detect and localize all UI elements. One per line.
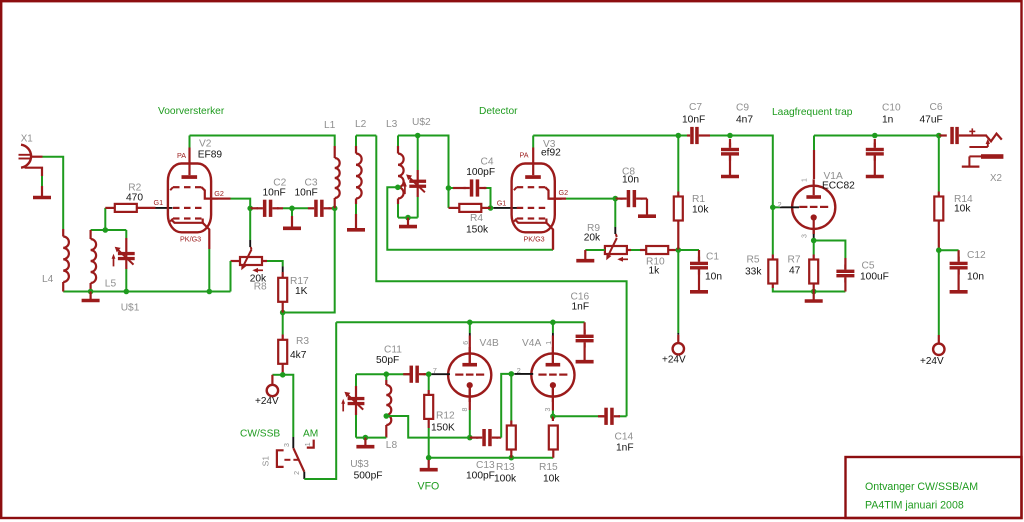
svg-text:R15: R15 xyxy=(539,462,558,473)
svg-text:2: 2 xyxy=(294,471,301,475)
svg-text:2: 2 xyxy=(517,366,521,375)
svg-text:Laagfrequent trap: Laagfrequent trap xyxy=(772,107,853,118)
svg-text:10k: 10k xyxy=(543,474,560,485)
svg-text:3: 3 xyxy=(802,234,809,238)
svg-text:V4A: V4A xyxy=(522,338,541,349)
svg-text:10nF: 10nF xyxy=(682,115,705,126)
svg-text:C11: C11 xyxy=(384,345,402,356)
svg-text:C9: C9 xyxy=(736,103,749,114)
svg-text:EF89: EF89 xyxy=(198,149,223,160)
svg-text:ef92: ef92 xyxy=(541,148,561,159)
svg-text:4k7: 4k7 xyxy=(290,350,307,361)
svg-text:150k: 150k xyxy=(466,225,489,236)
svg-text:47: 47 xyxy=(789,266,801,277)
svg-text:G2: G2 xyxy=(214,189,224,198)
svg-text:+24V: +24V xyxy=(662,355,686,366)
svg-text:C6: C6 xyxy=(930,102,943,113)
svg-text:10k: 10k xyxy=(954,204,971,215)
svg-text:U$1: U$1 xyxy=(121,303,140,314)
svg-text:1K: 1K xyxy=(295,286,308,297)
svg-text:10n: 10n xyxy=(705,272,722,283)
svg-text:C10: C10 xyxy=(882,103,901,114)
svg-text:R8: R8 xyxy=(254,281,267,292)
svg-text:CW/SSB: CW/SSB xyxy=(240,429,280,440)
svg-text:10k: 10k xyxy=(692,205,709,216)
svg-text:C7: C7 xyxy=(689,102,702,113)
svg-text:7: 7 xyxy=(433,366,437,375)
svg-text:X1: X1 xyxy=(21,133,33,144)
svg-text:L1: L1 xyxy=(324,120,336,131)
svg-text:PK/G3: PK/G3 xyxy=(524,235,545,244)
svg-text:1nF: 1nF xyxy=(572,302,590,313)
svg-text:1: 1 xyxy=(305,442,312,446)
svg-text:AM: AM xyxy=(303,429,318,440)
svg-text:100pF: 100pF xyxy=(466,471,495,482)
svg-text:+24V: +24V xyxy=(920,356,944,367)
svg-text:2: 2 xyxy=(778,200,782,209)
svg-text:PA4TIM januari 2008: PA4TIM januari 2008 xyxy=(865,500,964,512)
svg-text:1: 1 xyxy=(546,341,553,345)
svg-text:G2: G2 xyxy=(559,188,569,197)
svg-text:R4: R4 xyxy=(470,213,483,224)
svg-text:50pF: 50pF xyxy=(376,355,399,366)
svg-text:10n: 10n xyxy=(967,272,984,283)
svg-text:4n7: 4n7 xyxy=(736,115,753,126)
svg-text:1nF: 1nF xyxy=(616,443,634,454)
svg-text:R1: R1 xyxy=(692,194,705,205)
svg-text:PA: PA xyxy=(520,151,529,160)
svg-text:1n: 1n xyxy=(882,115,893,126)
svg-text:20k: 20k xyxy=(584,233,601,244)
svg-text:G1: G1 xyxy=(497,198,507,207)
svg-text:10nF: 10nF xyxy=(263,188,286,199)
svg-text:1: 1 xyxy=(802,178,809,182)
svg-text:U$3: U$3 xyxy=(350,459,369,470)
svg-text:R12: R12 xyxy=(436,411,455,422)
svg-text:C1: C1 xyxy=(706,252,719,263)
svg-text:V4B: V4B xyxy=(480,338,499,349)
svg-text:150K: 150K xyxy=(431,423,455,434)
svg-text:L8: L8 xyxy=(386,440,398,451)
svg-text:C4: C4 xyxy=(481,156,494,167)
svg-text:+24V: +24V xyxy=(255,396,279,407)
svg-text:PK/G3: PK/G3 xyxy=(180,235,201,244)
svg-text:Detector: Detector xyxy=(479,106,518,117)
svg-text:R13: R13 xyxy=(496,462,515,473)
svg-text:C13: C13 xyxy=(476,460,495,471)
svg-text:L5: L5 xyxy=(105,278,117,289)
svg-text:3: 3 xyxy=(545,408,552,412)
svg-text:1k: 1k xyxy=(649,266,661,277)
svg-text:L2: L2 xyxy=(355,119,367,130)
svg-text:100uF: 100uF xyxy=(860,272,889,283)
svg-text:470: 470 xyxy=(126,193,143,204)
svg-text:C14: C14 xyxy=(615,432,634,443)
svg-text:R7: R7 xyxy=(788,255,801,266)
svg-text:C12: C12 xyxy=(967,250,986,261)
svg-text:47uF: 47uF xyxy=(920,115,943,126)
svg-text:10nF: 10nF xyxy=(295,188,318,199)
svg-text:Ontvanger CW/SSB/AM: Ontvanger CW/SSB/AM xyxy=(865,481,978,493)
svg-text:R3: R3 xyxy=(296,336,309,347)
svg-text:33k: 33k xyxy=(745,267,762,278)
svg-text:100k: 100k xyxy=(494,474,517,485)
svg-text:G1: G1 xyxy=(154,198,164,207)
svg-text:PA: PA xyxy=(177,151,186,160)
svg-text:6: 6 xyxy=(463,341,470,345)
svg-text:S1: S1 xyxy=(261,456,271,467)
svg-text:10n: 10n xyxy=(622,175,639,186)
svg-text:VFO: VFO xyxy=(418,481,440,493)
svg-text:500pF: 500pF xyxy=(354,471,383,482)
svg-text:L4: L4 xyxy=(42,274,54,285)
svg-text:100pF: 100pF xyxy=(466,167,495,178)
svg-text:V2: V2 xyxy=(199,139,212,150)
svg-text:3: 3 xyxy=(284,443,291,447)
svg-text:8: 8 xyxy=(462,408,469,412)
svg-text:L3: L3 xyxy=(386,119,398,130)
svg-text:U$2: U$2 xyxy=(412,117,431,128)
svg-text:R5: R5 xyxy=(747,255,760,266)
svg-text:X2: X2 xyxy=(990,173,1002,184)
svg-text:Voorversterker: Voorversterker xyxy=(158,106,225,117)
svg-text:ECC82: ECC82 xyxy=(822,181,855,192)
svg-text:C5: C5 xyxy=(862,261,875,272)
